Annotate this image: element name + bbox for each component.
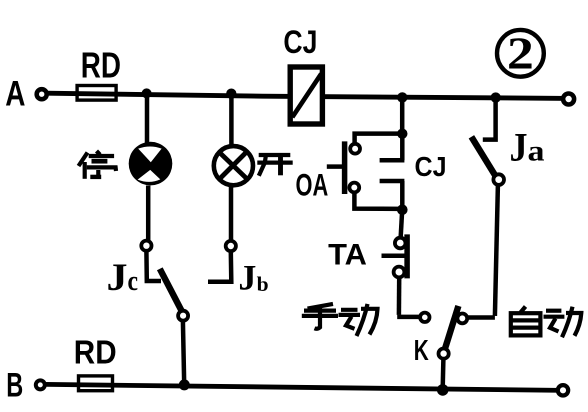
svg-text:a: a [528, 135, 545, 168]
svg-text:c: c [128, 266, 139, 297]
svg-text:RD: RD [74, 334, 117, 371]
svg-text:J: J [510, 125, 528, 170]
svg-text:RD: RD [81, 46, 121, 86]
svg-text:TA: TA [328, 238, 367, 271]
svg-text:CJ: CJ [283, 24, 317, 60]
svg-text:K: K [414, 335, 429, 367]
svg-text:CJ: CJ [415, 151, 447, 182]
svg-text:A: A [5, 75, 25, 114]
svg-text:J: J [107, 256, 128, 299]
svg-text:b: b [257, 272, 269, 296]
svg-text:J: J [238, 258, 256, 298]
svg-text:OA: OA [296, 168, 329, 203]
svg-text:2: 2 [507, 28, 534, 79]
svg-text:B: B [6, 367, 23, 405]
